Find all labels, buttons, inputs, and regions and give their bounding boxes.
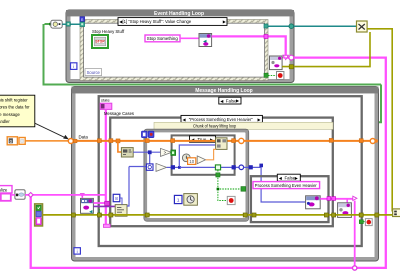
VI icon: Dequeue Message [81, 198, 94, 213]
svg-text:Stop Heavy Stuff: Stop Heavy Stuff [92, 29, 125, 34]
wire: pink initialize to junctions [11, 194, 15, 196]
svg-text:This shift register: This shift register [0, 97, 28, 102]
label: Source [85, 69, 102, 76]
wire: orange main data [25, 140, 69, 142]
wire: pink into dequeue [81, 197, 83, 199]
wire: green long horizontal under event loop [43, 84, 382, 86]
while loop: Message Handling Loop border [72, 87, 379, 262]
VI icon: Enqueue Message A [306, 196, 321, 209]
boolean constant: F green [215, 165, 220, 170]
VI icon: Enqueue Message (stop, on loop edge) [270, 56, 283, 70]
label: Chunk of heavy lifting loop (yellow band) [154, 122, 333, 129]
svg-text:8: 8 [115, 196, 118, 201]
tunnel: pink on MC right border [332, 197, 336, 201]
terminal: event loop stop condition [277, 72, 284, 80]
junction: green dot [217, 188, 220, 191]
icon: string-to-queue-ish [15, 190, 25, 199]
terminal: event loop iteration i [71, 63, 77, 70]
wire: blue array size out [133, 151, 160, 153]
selector: "Process Something Even Heavier" [181, 115, 262, 122]
function: Replace Array Subset [216, 138, 227, 150]
wire: pink from enqueue A [320, 198, 354, 200]
selector: False [277, 174, 300, 181]
wire: olive error from enqueue out of loop to release queue [282, 32, 370, 67]
wire: pink down to enqueue B [346, 199, 348, 203]
VI icon: error out / merge at right edge [393, 209, 400, 217]
wire: orange elbow from increment up into replace [206, 149, 216, 159]
junction: blue square in false case [259, 164, 263, 168]
junction: blue square [148, 150, 152, 154]
function: comparator 2 [156, 163, 167, 171]
junction: pink branch triangle [283, 55, 288, 59]
wire: olive error long [43, 214, 393, 216]
string constant box below [1, 194, 11, 201]
terminal: message loop stop [359, 219, 372, 226]
case structure: Message Cases [110, 118, 333, 227]
tunnel: green on inner case bottom [216, 173, 220, 177]
wire: blue down branch [149, 154, 151, 167]
svg-text:handler: handler [0, 119, 10, 124]
icon: blue 8 (U8 constant) [113, 194, 120, 201]
svg-text:Stop Something: Stop Something [147, 36, 179, 41]
wire: pink state down [105, 110, 107, 227]
junction: pink triangle on state wire [81, 194, 84, 197]
shift register: data left [68, 139, 77, 144]
wire: green dotted selector chain [218, 170, 243, 189]
svg-text:Data: Data [79, 135, 89, 140]
svg-text:Process Something Even Heavier: Process Something Even Heavier [255, 183, 318, 188]
selector: False (big case) [219, 97, 241, 104]
tunnel: blue on inner case left [171, 165, 175, 169]
constant: 10 [188, 158, 196, 165]
error cluster constant [35, 204, 43, 226]
shift register: data right [370, 139, 378, 144]
svg-text:i: i [77, 249, 78, 254]
VI icon: Release Queue [357, 21, 368, 32]
tunnel: teal on event structure right border [264, 24, 268, 28]
VI icon: Variant To Data [115, 205, 127, 217]
VI icon: Enqueue Message (in event case) [199, 34, 212, 47]
wire: teal event reg refnum into loop [62, 23, 80, 25]
constant: 1 (blue) and wait icon in chunk loop [174, 194, 197, 206]
wire: green dotted to loop stop [268, 74, 276, 76]
string constant: Initialize label [0, 186, 12, 193]
wire: blue into false case [244, 167, 306, 202]
svg-text:i: i [73, 64, 74, 69]
selector: True [190, 136, 216, 142]
function: small blue icon (conversion) [146, 164, 153, 170]
svg-text:Message Cases: Message Cases [104, 111, 134, 116]
arrow: comment to shift register [35, 123, 69, 139]
tunnel: teal on event loop right border [289, 24, 294, 29]
tunnel: olive on event loop right border [289, 65, 293, 69]
shift register: state (pink, left) [100, 103, 112, 109]
svg-text:1: 1 [177, 198, 180, 203]
svg-text:"Process Something Even Heavie: "Process Something Even Heavier" [189, 117, 253, 122]
wire: purple variant out [93, 205, 115, 207]
wire: teal queue refnum to release queue [266, 25, 357, 27]
case structure: big False case [99, 96, 362, 246]
wire: pink string to enqueue [180, 37, 199, 39]
function: increment triangle [197, 156, 205, 164]
junction: pink diamond [28, 193, 33, 198]
wire: blue from variant up to comparators [127, 167, 129, 207]
while loop: chunk of heavy lifting loop [144, 129, 249, 221]
tunnel: pink on MC bottom [103, 224, 110, 227]
wire: orange branch down to array size [118, 141, 122, 152]
wire: blue bottom through inner case [180, 166, 243, 168]
wire: blue into inner case [167, 166, 180, 168]
junction: pink circle on bottom wire [353, 266, 357, 270]
function: Wait (ms) clock [182, 154, 190, 162]
tunnel: pink on false case right border [327, 197, 331, 201]
icons: queue mini icons on chunk loop top [142, 131, 154, 137]
tunnel: pink on event structure right border [264, 35, 268, 39]
junction: blue dot inside [178, 166, 181, 169]
terminal: message loop iteration i [74, 248, 80, 254]
svg-text:STOP: STOP [95, 40, 105, 44]
wire: pink down long [354, 201, 356, 268]
wire: green dotted stub below dequeue [98, 209, 100, 214]
tunnel: green on chunk loop right [241, 187, 246, 192]
junction: magenta square [105, 201, 110, 205]
control: Data (orange array) [7, 137, 25, 145]
event structure selector: [1] "Stop Heavy Stuff": Value Change [118, 18, 227, 26]
case structure: inner True case [172, 135, 235, 174]
svg-text:>: > [164, 150, 167, 155]
tunnel: green boolean on event structure border [264, 73, 268, 77]
while loop: Event Handling Loop border [66, 10, 294, 83]
function: Array Size [121, 148, 133, 157]
dynamic event terminal (teal) [80, 22, 85, 27]
terminal: Stop Heavy Stuff boolean control [92, 35, 108, 48]
svg-text:10: 10 [189, 159, 194, 164]
wire: green user event refnum, vertical from register node down [43, 24, 382, 122]
loop title bar: Event Handling Loop [66, 10, 294, 17]
string constant: Process Something Even Heavier [253, 182, 320, 189]
wire: pink dequeue out [93, 202, 104, 204]
register for events node [45, 20, 63, 28]
svg-text:Source: Source [87, 70, 101, 75]
wire: olive error from release queue to right edge [367, 29, 392, 212]
svg-text:state: state [101, 97, 110, 102]
selector terminal: green ? on inner case [171, 150, 176, 155]
wire: pink stub into Enqueue stop VI [282, 57, 286, 59]
wire: blue from 8 to variant [120, 198, 122, 205]
svg-text:Event Handling Loop: Event Handling Loop [154, 11, 204, 17]
tunnels: orange crossings [97, 139, 101, 143]
svg-text:Chunk of heavy lifting loop: Chunk of heavy lifting loop [193, 124, 237, 129]
tunnel: pink on event loop right border [289, 55, 294, 60]
wire: blue bottom path [129, 166, 147, 168]
tunnels: olive crossings [71, 213, 75, 217]
svg-text:the message: the message [0, 112, 20, 117]
junction: pink triangle right [353, 196, 357, 200]
tunnel: teal on loop border [66, 22, 70, 26]
tunnel: blue chunk loop right (ring) [239, 165, 244, 170]
wire: blue up and to replace icon [179, 145, 215, 167]
case structure: bottom False case [251, 176, 329, 222]
svg-text:Initialize: Initialize [0, 187, 8, 192]
comment: shift register note [0, 95, 35, 127]
string constant: Stop Something [145, 35, 180, 42]
svg-text:[1] "Stop Heavy Stuff": Value: [1] "Stop Heavy Stuff": Value Change [123, 19, 192, 24]
svg-text:Message Handling Loop: Message Handling Loop [195, 88, 253, 94]
wire: green right vertical into message loop big case [361, 85, 381, 123]
VI icon: Enqueue Message B [338, 203, 352, 218]
event structure border [80, 20, 268, 81]
loop title bar: Message Handling Loop [72, 87, 379, 95]
wire: pink message out of event case [31, 36, 386, 268]
tunnel: blue on MC right border is actually on false case left [249, 165, 253, 169]
function: comparator 1 (greater?) [161, 148, 172, 156]
tunnel: blue inner case right [232, 165, 236, 169]
svg-text:stores the data for: stores the data for [0, 105, 30, 110]
dynamic event terminal (blue n) on event border [80, 17, 85, 22]
terminal: chunk loop stop condition [227, 196, 235, 204]
